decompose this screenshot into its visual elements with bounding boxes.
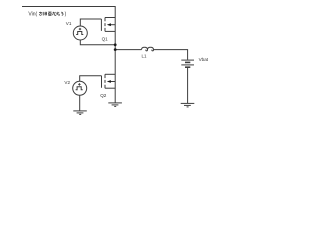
svg-text:): ) <box>65 12 67 18</box>
svg-text:Q2: Q2 <box>100 93 107 98</box>
label Vin (from solar cell) <box>28 12 66 18</box>
svg-text:Q1: Q1 <box>102 36 109 41</box>
transistor Q2 <box>102 74 116 88</box>
wire switch node to inductor <box>115 49 141 51</box>
wire switch node vertical <box>114 18 116 103</box>
wire battery negative to ground <box>187 68 189 104</box>
wire V1 gate lead <box>80 19 101 26</box>
wire V1 source return <box>80 40 115 45</box>
wire inductor to battery <box>154 50 188 60</box>
node SW junction dot 1 <box>114 43 117 46</box>
ground below Q2 <box>108 103 122 107</box>
svg-text:V1: V1 <box>66 21 72 26</box>
wire V2 negative to ground <box>79 95 81 111</box>
svg-text:V2: V2 <box>64 80 70 85</box>
svg-text:Vbat: Vbat <box>199 57 209 62</box>
ground below battery <box>181 103 195 107</box>
wire Vin top rail <box>22 7 115 18</box>
svg-text:L1: L1 <box>142 54 147 59</box>
voltage source V1 <box>73 26 87 40</box>
wire V2 gate lead <box>80 76 102 82</box>
voltage source V2 <box>73 81 87 95</box>
transistor Q1 <box>101 18 115 32</box>
node SW junction dot 2 <box>114 48 117 51</box>
battery Vbat <box>181 60 194 67</box>
svg-text:Vin(: Vin( <box>28 12 37 18</box>
ground below V2 <box>73 111 87 115</box>
inductor L1 <box>142 47 154 51</box>
